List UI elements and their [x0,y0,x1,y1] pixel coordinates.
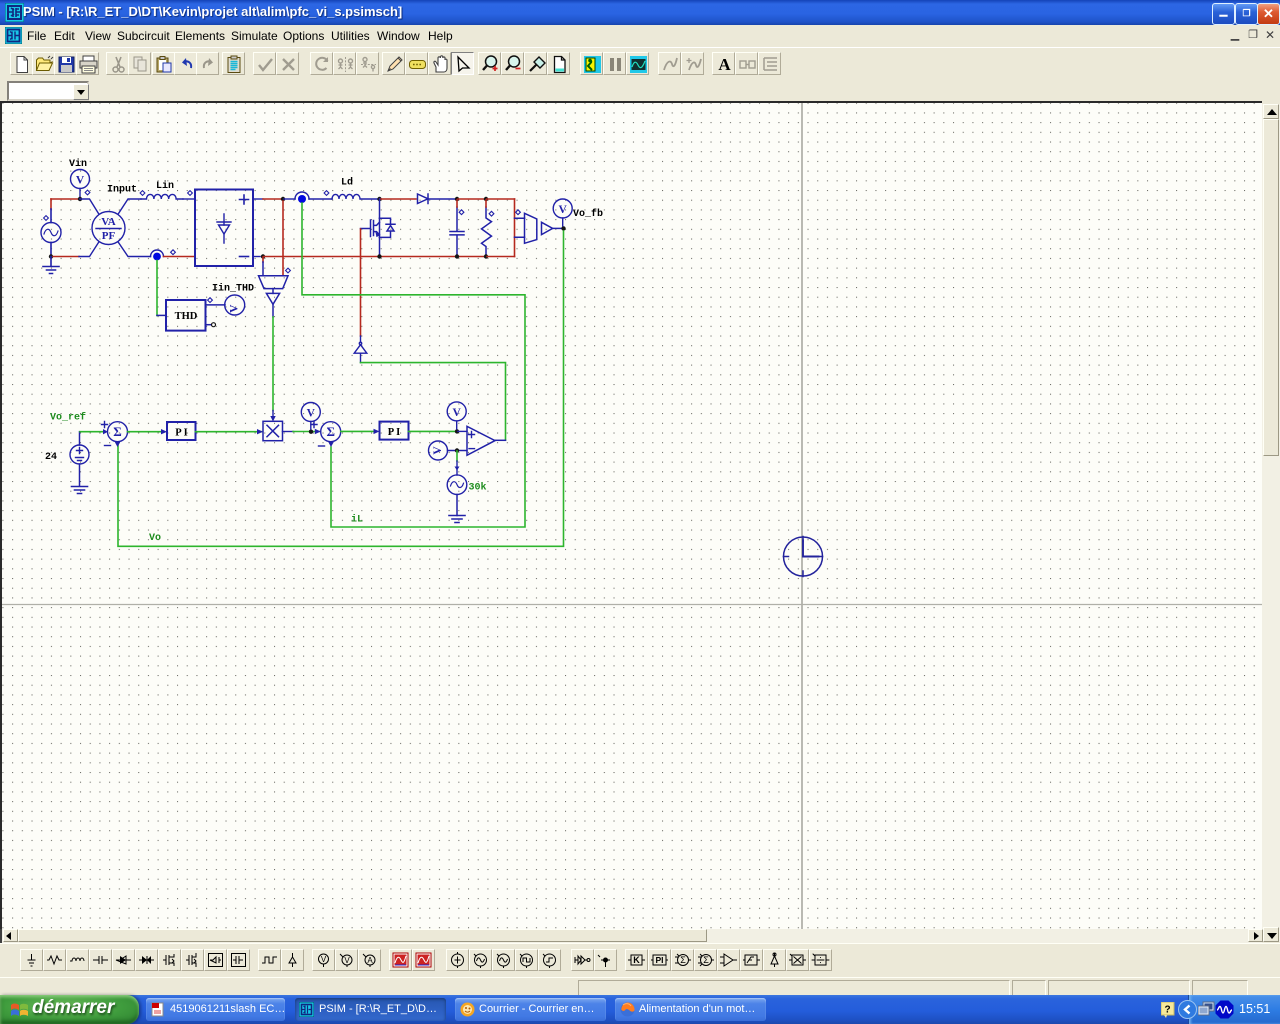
multiplier top arrow [270,416,275,422]
ground below 24V [72,487,88,494]
ac source lead bottom [50,243,52,257]
PI1 input arrow [161,429,167,434]
green wire summer1 to PI1 [128,431,164,433]
junction mosfet source [377,254,381,258]
current flag blue dot top [298,195,306,203]
svg-text:A: A [367,956,373,965]
wire red to bridge bottom [164,256,195,258]
resistor lead red [485,200,487,207]
VA/PF meter [92,212,125,245]
wire red left vertical [50,199,52,209]
THD block [166,300,206,331]
wire to current flag [284,198,295,200]
svg-text:P I: P I [175,428,188,439]
dc source 24V [70,445,89,464]
summer1 input arrow [103,429,108,434]
terminal diamonds [44,190,521,302]
svg-text:V: V [432,446,444,455]
summer U1 [108,422,128,442]
wire red res to corner [487,198,515,200]
voltage probe mult out [301,403,320,430]
green stub below junction [456,451,458,461]
page boundary vertical line [801,103,803,929]
gain triangle [542,222,553,234]
svg-text:30k: 30k [469,482,487,494]
junction at source bottom [49,254,53,258]
voltage probe Vin [71,170,90,197]
svg-text:A: A [718,55,731,74]
comparator U3 [467,426,495,455]
junction opamp plus input [455,429,459,433]
summer1 minus [105,445,111,447]
green net Vo [118,231,564,546]
page boundary horizontal line [2,604,1262,606]
summer2 plus [311,422,317,428]
green wire to THD [156,261,158,316]
comparator output wire [495,439,506,441]
svg-text:Σ: Σ [703,955,709,965]
capacitor C1 [450,207,464,257]
bridge output wire [253,198,263,200]
voltage probe carrier [429,441,448,460]
bridge bottom out wire [253,256,260,258]
summer2 minus [319,445,325,447]
svg-text:V: V [307,408,316,420]
diode bridge BD1 [195,190,253,267]
junction res bottom [484,254,488,258]
wire red sensor vertical [282,201,284,276]
ground below 30k [449,516,465,523]
summer1 plus [102,422,108,428]
comparator minus [469,448,475,450]
dc source lead down [79,464,81,486]
junction opamp minus input [455,448,459,452]
mosfet Q1 [361,199,396,257]
PI2 input arrow [374,429,380,434]
clock symbol [784,537,823,577]
current flag arc top [295,192,309,199]
voltage sensor trapezoid Vo [525,213,537,243]
wire red right vertical [514,199,516,257]
wire gain to node [553,227,562,229]
junction cap bottom [455,254,459,258]
voltage probe Iin_THD [225,295,245,315]
junction mosfet drain [377,197,381,201]
inductor Lin [141,194,183,199]
output sensor stubs [515,218,525,237]
THD block input wire [157,314,166,316]
junction cap top [455,197,459,201]
bridge diode glyph [217,214,231,243]
current flag blue dot [153,253,161,261]
summer2 input arrow [315,429,321,434]
THD output 2 open node [206,324,212,326]
svg-text:P I: P I [388,427,401,438]
wire probe to opamp minus [448,450,468,452]
diode D1 [418,194,429,204]
green wire mult to summer2 [283,431,294,433]
VA/PF meter leads [79,199,151,257]
multiplier block [263,421,283,440]
wire to Ld [309,198,332,200]
wire red bridge out [263,198,282,200]
svg-text:K: K [633,955,640,965]
summer U2 [321,422,341,442]
voltage probe opamp in [447,402,466,429]
junction Vo_fb [561,226,565,230]
junction mult out [309,430,313,434]
junction res top [484,197,488,201]
voltage probe Vo_fb [553,199,572,226]
green net iL [302,203,525,527]
sensor tap stub [262,257,264,262]
wire red gate vertical [360,229,362,336]
summer2 bottom arrow [328,442,333,447]
svg-text:Vo_ref: Vo_ref [50,412,86,424]
bridge minus [240,256,249,258]
svg-text:?: ? [1164,1005,1170,1016]
wire red bottom left [53,256,79,258]
comparator plus [469,432,475,438]
svg-text:Σ: Σ [326,424,335,439]
summer1 bottom arrow [115,442,120,447]
small down arrow [455,467,460,471]
resistor R1 [482,207,492,257]
wire red bottom right [487,256,515,258]
voltage sensor trapezoid Iin [259,276,289,317]
green wire PI2 to opamp [409,430,455,432]
wire red top left [51,198,78,200]
capacitor lead red [456,200,458,207]
wire diode to cap [428,198,456,200]
junction node Vin [78,197,82,201]
wire red bottom rail [264,256,486,258]
svg-text:PI: PI [655,955,663,965]
wire red to diode [380,198,416,200]
svg-text:V: V [453,407,462,419]
sine source lead down [456,495,458,516]
junction sensor tap [261,254,265,258]
THD output wire [206,304,226,306]
green net gate feedback [361,363,506,440]
wire into bridge [183,198,195,200]
wire junction to opamp [458,430,467,432]
PI block 2 [380,422,409,440]
green wire sensor to multiplier [272,317,274,411]
svg-text:Σ: Σ [680,955,686,965]
green wire summer2 to PI2 [341,430,377,432]
svg-text:24: 24 [45,452,57,463]
wire red cap to res [458,198,485,200]
svg-text:V: V [344,956,350,965]
ac source lead top [50,209,52,223]
green wire PI1 to multiplier [196,431,262,433]
current flag sensor bottom arc [151,250,164,256]
bridge plus [240,195,249,204]
lead to sine source [456,461,458,475]
green wire to summer1 [80,431,103,433]
multiplier input arrow [257,429,263,434]
inductor Ld [332,194,379,199]
dc source lead up [79,432,81,445]
junction bridge out [281,197,285,201]
ground [43,257,59,274]
gate driver triangle [354,336,367,363]
sine source 30k [447,475,467,495]
svg-text:Σ: Σ [113,424,122,439]
svg-text:V: V [321,955,327,964]
PI block 1 [167,422,196,440]
ac source Vs [41,223,61,243]
